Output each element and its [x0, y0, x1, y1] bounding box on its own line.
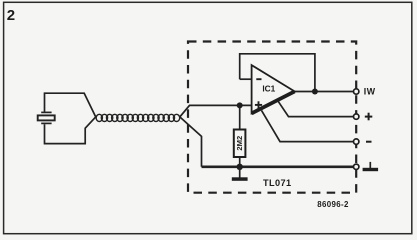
terminal IW [354, 89, 359, 94]
label minus [366, 141, 372, 143]
ground under resistor [232, 167, 248, 181]
terminal plus [354, 114, 359, 119]
wire inverting input [240, 78, 252, 80]
label plus [365, 113, 373, 121]
resistor R1 [234, 105, 246, 166]
svg-text:86096-2: 86096-2 [317, 200, 349, 209]
op-amp IC1 [252, 65, 295, 113]
svg-text:2: 2 [7, 7, 15, 24]
terminal ground [354, 164, 359, 169]
svg-text:IW: IW [364, 87, 376, 97]
svg-text:IC1: IC1 [262, 83, 275, 93]
ground rail wire [202, 165, 354, 168]
junction output feedback [312, 89, 318, 95]
junction non-inverting input [237, 102, 243, 108]
dashed enclosure [188, 42, 356, 193]
svg-text:TL071: TL071 [263, 178, 292, 188]
wire V+ supply [278, 100, 354, 116]
wire + input from cable [180, 105, 252, 117]
svg-text:2M2: 2M2 [235, 136, 244, 151]
wire output [295, 91, 353, 93]
wire V- supply [262, 110, 354, 141]
twisted-pair cable [96, 114, 180, 121]
wire cable screen to ground rail [180, 117, 202, 167]
feedback wire [240, 54, 315, 92]
ground at terminal [363, 162, 379, 171]
terminal minus [354, 139, 359, 144]
piezo transducer M1 [38, 93, 96, 143]
junction resistor ground [237, 164, 243, 170]
